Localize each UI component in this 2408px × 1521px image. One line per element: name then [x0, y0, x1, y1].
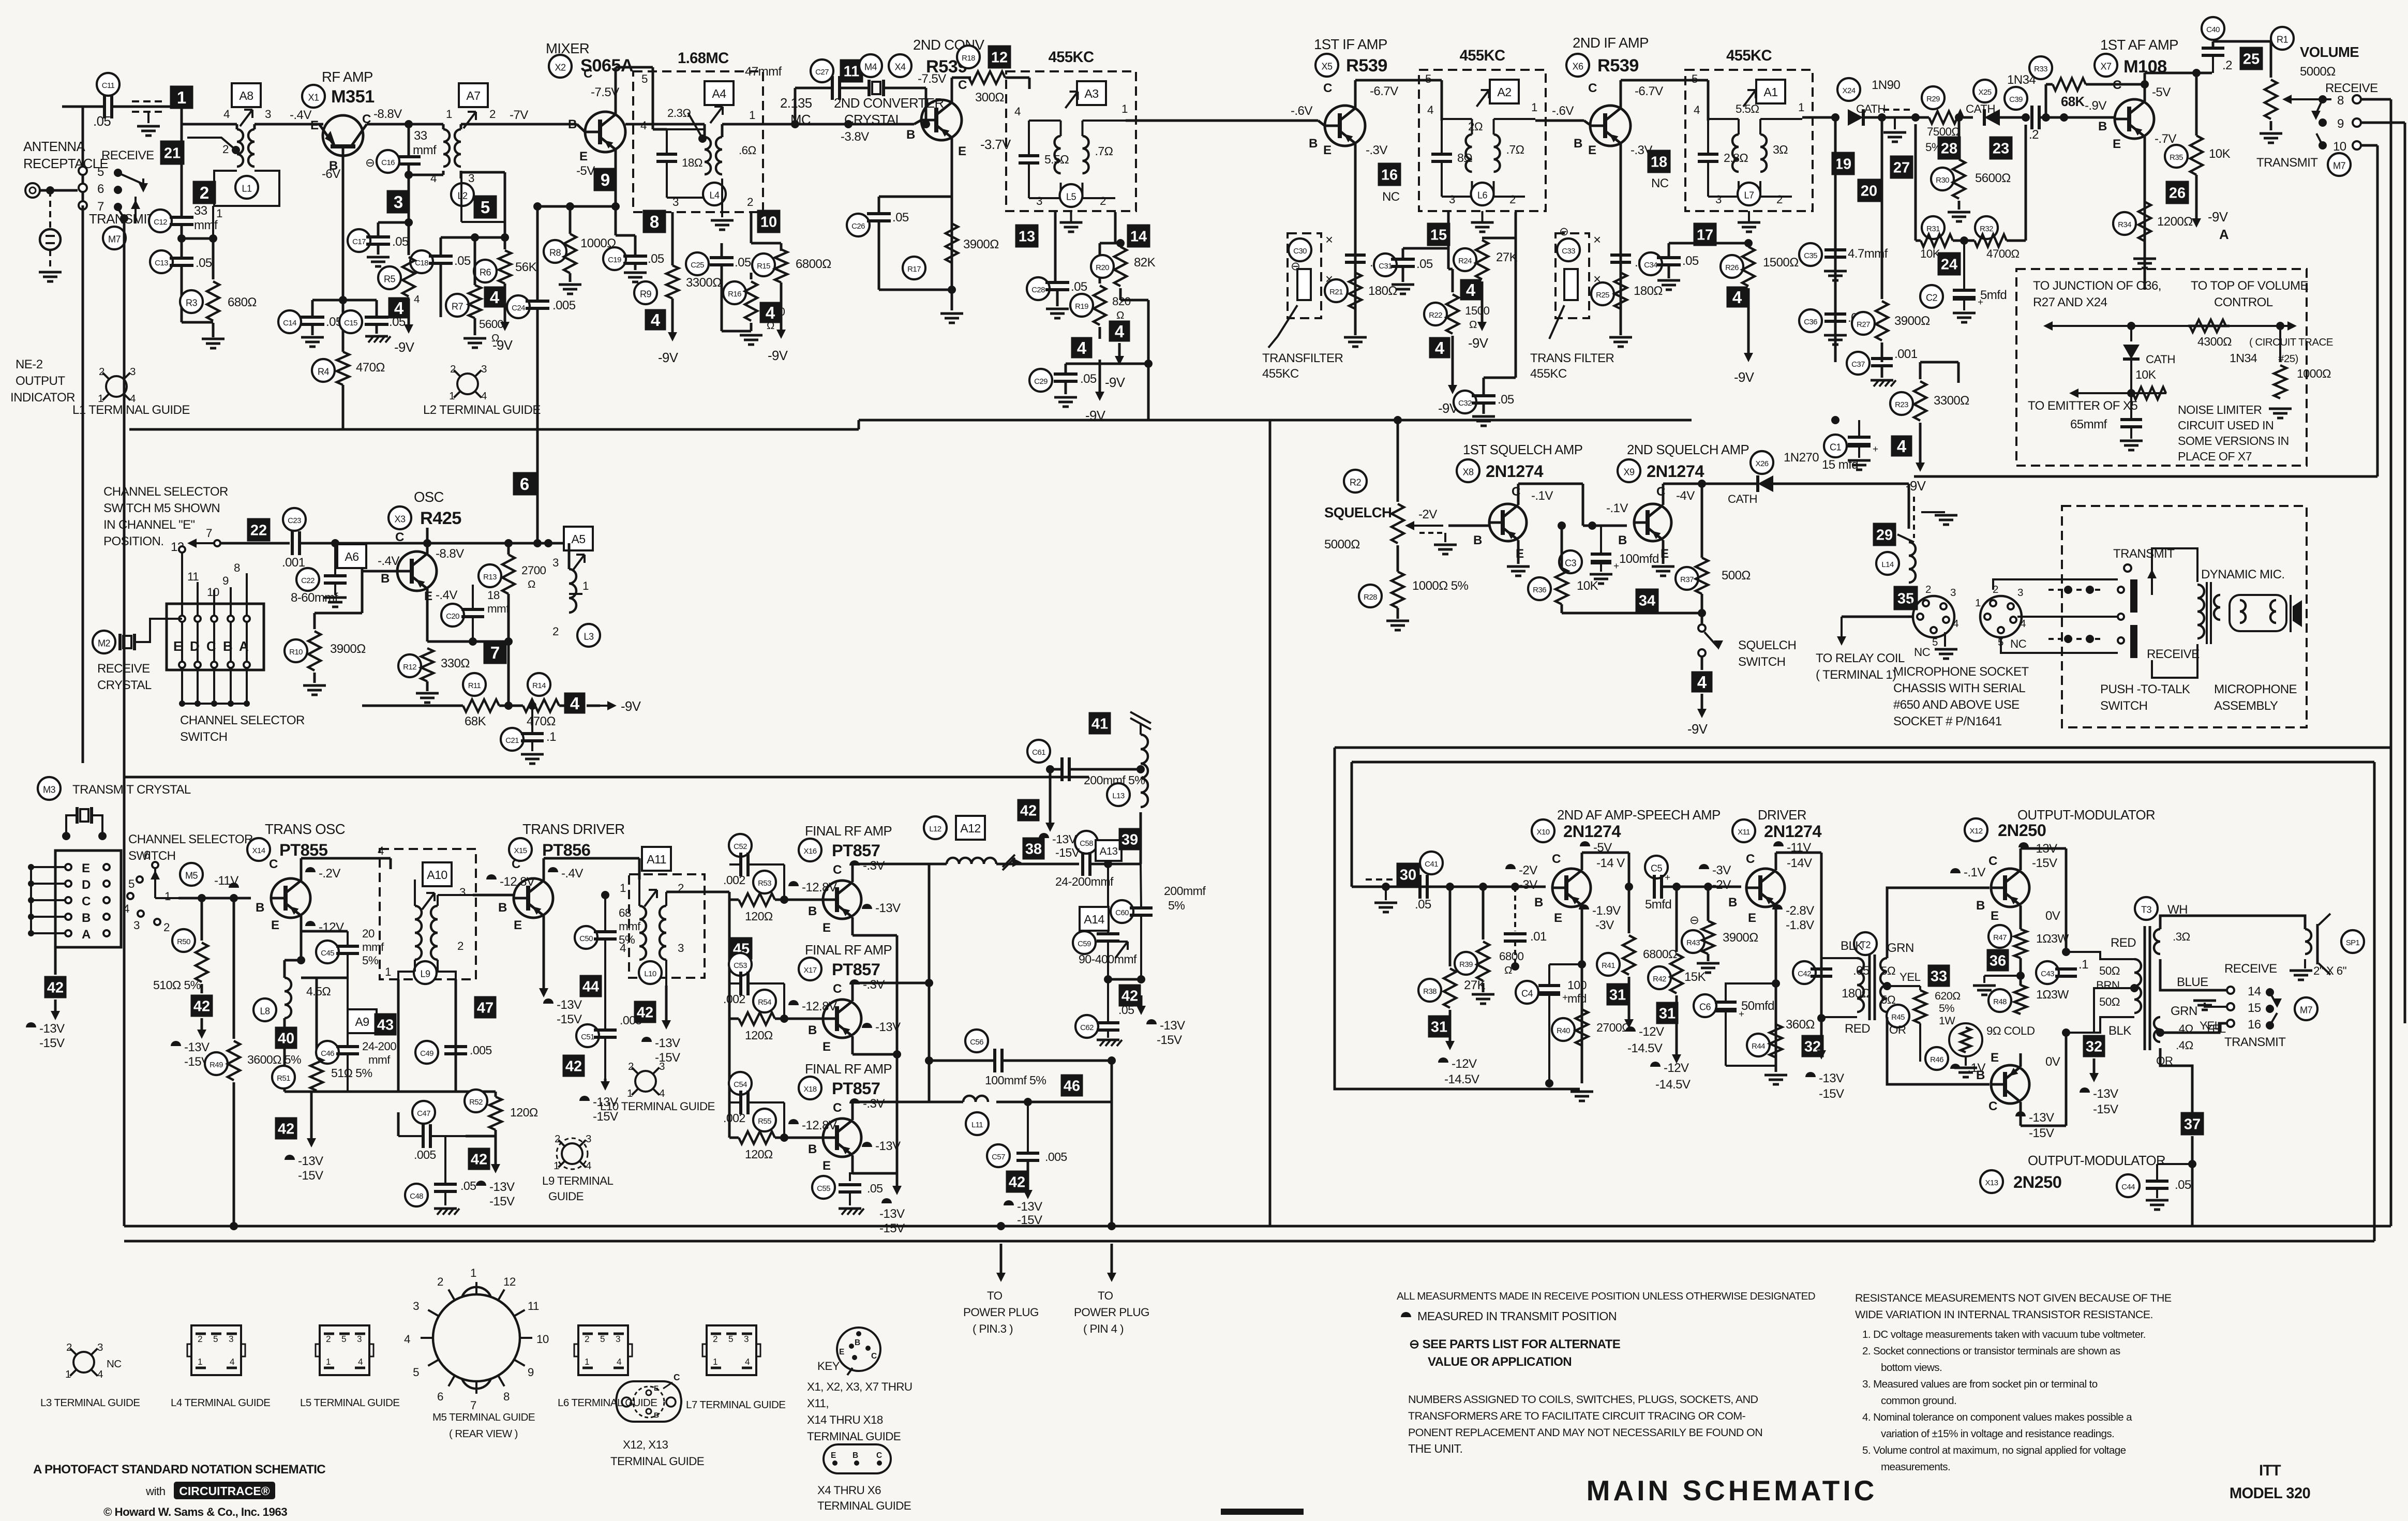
svg-text:C39: C39	[2009, 95, 2023, 104]
wire L5 pin3 down	[1054, 212, 1057, 282]
svg-text:-14V: -14V	[1787, 856, 1812, 870]
capacitor C11	[103, 95, 106, 118]
capacitor C24 label	[507, 295, 530, 318]
wire X17 collector to bus	[851, 983, 854, 988]
mic socket 1 circle	[1913, 596, 1954, 637]
svg-text:4: 4	[570, 694, 580, 713]
svg-text:A10: A10	[427, 868, 447, 882]
resistor R55	[739, 1131, 775, 1144]
wire X1 emitter from L1	[317, 124, 323, 137]
transistor X14 label	[247, 838, 270, 861]
resistor R12 label	[398, 654, 421, 677]
X12 X13 terminal guide	[616, 1381, 681, 1422]
wire selector to X14 base	[178, 897, 251, 900]
resistor R32 label	[1975, 216, 1998, 239]
svg-text:.3Ω: .3Ω	[2173, 930, 2190, 943]
svg-text:B: B	[2098, 120, 2107, 133]
svg-text:ITT: ITT	[2259, 1463, 2281, 1479]
svg-text:.05: .05	[1080, 372, 1097, 386]
svg-text:C: C	[871, 1352, 877, 1361]
svg-text:.05: .05	[1118, 1003, 1134, 1017]
svg-text:-13V: -13V	[489, 1180, 515, 1194]
svg-text:4: 4	[651, 310, 661, 330]
svg-text:C36: C36	[1804, 318, 1817, 326]
svg-text:R539: R539	[1346, 56, 1387, 76]
svg-text:-9V: -9V	[621, 699, 641, 714]
resistor R43 label	[1682, 930, 1704, 953]
svg-text:C21: C21	[505, 736, 519, 745]
svg-text:3: 3	[672, 196, 679, 208]
svg-text:5.5Ω: 5.5Ω	[1736, 102, 1759, 115]
svg-text:R12: R12	[403, 663, 416, 672]
transistor X7	[2115, 99, 2154, 139]
svg-text:10K: 10K	[1577, 579, 1598, 593]
contact wires up	[197, 582, 199, 616]
svg-text:C22: C22	[301, 576, 315, 585]
svg-text:0V: 0V	[2045, 1055, 2060, 1069]
svg-text:10K: 10K	[2209, 147, 2231, 161]
svg-text:3: 3	[678, 942, 684, 955]
svg-text:2.3Ω: 2.3Ω	[667, 107, 691, 120]
ground stub near wiper	[1444, 533, 1446, 542]
svg-text:E: E	[82, 861, 90, 875]
svg-text:.2: .2	[2029, 128, 2039, 142]
svg-text:L5: L5	[1066, 191, 1076, 202]
svg-text:C45: C45	[321, 949, 334, 958]
CircuiTrace square 19	[1832, 152, 1855, 175]
svg-text:-.3V: -.3V	[1366, 143, 1387, 157]
power bus lower	[124, 1240, 2374, 1243]
svg-text:C49: C49	[420, 1049, 433, 1058]
diode X26	[1702, 483, 1757, 485]
wire L6 pin3 down	[1447, 212, 1450, 269]
CircuiTrace 42 below C60	[1119, 985, 1141, 1007]
svg-text:5: 5	[728, 1334, 733, 1344]
svg-text:C40: C40	[2206, 25, 2220, 34]
capacitor C14	[301, 316, 324, 319]
wire contact 8 right edge	[2361, 98, 2391, 101]
svg-text:28: 28	[1941, 140, 1957, 157]
svg-text:R23: R23	[1895, 400, 1908, 409]
input dashes and ground	[1366, 878, 1397, 881]
capacitor C59	[1097, 932, 1119, 935]
capacitor C22	[324, 574, 347, 577]
CircuiTrace square 46	[1061, 1075, 1083, 1097]
svg-text:A2: A2	[1497, 85, 1511, 99]
trimmer mark A8	[240, 110, 252, 126]
CircuiTrace 42 under C61	[1018, 799, 1040, 822]
ground below C35	[1834, 257, 1837, 269]
ground below R8	[559, 284, 581, 286]
capacitor C15 label	[339, 310, 362, 333]
svg-text:-6.7V: -6.7V	[1635, 84, 1663, 98]
svg-text:6800Ω: 6800Ω	[796, 257, 831, 271]
CircuiTrace 4 below R26	[1727, 287, 1748, 308]
svg-text:455KC: 455KC	[1460, 48, 1505, 64]
CircuiTrace square 41	[1089, 712, 1111, 735]
pot wiper arrow	[2285, 98, 2317, 100]
capacitor C25	[710, 256, 734, 259]
svg-text:2.8Ω: 2.8Ω	[1724, 151, 1748, 165]
svg-text:C18: C18	[415, 259, 428, 267]
svg-text:C42: C42	[1798, 970, 1811, 978]
capacitor C30 label	[1289, 238, 1311, 261]
power bus upper	[124, 1225, 2391, 1228]
antenna mark at L13	[1140, 723, 1142, 735]
capacitor C41 label	[1420, 852, 1443, 874]
svg-text:-9V: -9V	[1105, 376, 1126, 390]
transistor X11	[1746, 869, 1785, 907]
svg-text:1: 1	[713, 1356, 717, 1367]
ground below R16	[722, 330, 751, 333]
T3 YEL tap wire	[2156, 1028, 2164, 1037]
svg-text:68K: 68K	[2061, 95, 2085, 109]
transistor X4	[921, 100, 962, 140]
resistor R23	[1914, 381, 1926, 421]
svg-text:3: 3	[586, 1133, 591, 1145]
svg-text:4: 4	[586, 1160, 591, 1172]
svg-text:+: +	[1873, 444, 1878, 455]
coil label L6	[1471, 183, 1494, 205]
T3 primary connections	[2066, 952, 2134, 959]
svg-text:-15V: -15V	[298, 1169, 323, 1183]
speaker ground	[2304, 959, 2306, 968]
svg-text:11: 11	[844, 63, 860, 80]
noise limiter 1000 ohm resistor	[2279, 326, 2281, 362]
svg-text:-15V: -15V	[1819, 1087, 1844, 1101]
resistor R34	[2138, 202, 2151, 241]
svg-text:X24: X24	[1843, 86, 1856, 95]
svg-text:100: 100	[1567, 978, 1587, 992]
CircuiTrace 4 below R23	[1891, 436, 1912, 457]
svg-text:2ND CONVERTER: 2ND CONVERTER	[834, 96, 944, 111]
L10 pin3 to -13V	[665, 986, 668, 1026]
receptacle terminal circles	[79, 167, 87, 175]
svg-text:.05: .05	[392, 235, 409, 249]
svg-text:CIRCUIT USED IN: CIRCUIT USED IN	[2178, 419, 2274, 432]
svg-text:INDICATOR: INDICATOR	[10, 391, 75, 405]
selector upper contacts	[179, 616, 185, 622]
capacitor C11 label	[97, 73, 119, 96]
svg-text:Ω: Ω	[1116, 309, 1124, 321]
svg-text:IN CHANNEL "E": IN CHANNEL "E"	[103, 518, 195, 532]
capacitor C44 label	[2117, 1174, 2140, 1197]
svg-text:2: 2	[200, 183, 209, 202]
svg-text:-1.8V: -1.8V	[1786, 918, 1814, 932]
osc out bus	[569, 641, 570, 642]
CircuiTrace square 4 below R6	[484, 287, 505, 308]
svg-text:6: 6	[520, 474, 529, 494]
T3 BLUE wire	[2160, 959, 2226, 990]
svg-text:PT855: PT855	[279, 840, 328, 859]
svg-text:CRYSTAL: CRYSTAL	[97, 678, 152, 692]
svg-text:2" X 6": 2" X 6"	[2313, 964, 2346, 977]
wire C40 top to volume	[2212, 41, 2215, 48]
svg-text:3900Ω: 3900Ω	[1723, 931, 1758, 945]
svg-text:-7V: -7V	[510, 108, 528, 122]
svg-text:1N270: 1N270	[1784, 451, 1819, 465]
transformer T2 secondary	[1880, 958, 1887, 1012]
svg-text:TRANSMIT: TRANSMIT	[2224, 1035, 2286, 1049]
svg-text:2N250: 2N250	[2013, 1172, 2061, 1191]
transistor X12 label	[1965, 818, 1987, 841]
C60 to -13V	[1140, 995, 1143, 1012]
svg-text:X10: X10	[1537, 828, 1550, 837]
svg-text:-2V: -2V	[1418, 508, 1437, 521]
capacitor C21	[521, 732, 544, 735]
A10 dashed box	[380, 849, 476, 979]
svg-text:L3: L3	[584, 631, 594, 642]
transfilter 2 body	[1564, 269, 1578, 300]
svg-text:R5: R5	[384, 274, 395, 284]
svg-text:R22: R22	[1429, 311, 1442, 320]
resistor R36	[1556, 568, 1568, 604]
transfilter 2 capacitor	[1610, 253, 1631, 257]
svg-text:-13V: -13V	[879, 1207, 905, 1221]
svg-text:3300Ω: 3300Ω	[686, 276, 722, 290]
svg-text:POWER PLUG: POWER PLUG	[1074, 1306, 1149, 1319]
volume potentiometer R1	[2265, 80, 2277, 119]
CircuiTrace square 5	[474, 196, 497, 219]
svg-text:M3: M3	[43, 784, 55, 795]
X18 emitter to C55	[852, 1173, 897, 1174]
ground below C21	[521, 753, 544, 756]
svg-text:A14: A14	[1084, 913, 1104, 926]
svg-text:C61: C61	[1032, 748, 1045, 757]
svg-text:POWER PLUG: POWER PLUG	[963, 1306, 1039, 1319]
svg-text:10: 10	[2333, 140, 2346, 154]
L1 terminal guide	[106, 376, 127, 397]
svg-text:E: E	[173, 639, 182, 654]
resistor R45 label	[1887, 1005, 1909, 1027]
resistor R50	[196, 943, 208, 982]
svg-text:RECEIVE: RECEIVE	[2224, 962, 2277, 976]
capacitor C18	[429, 255, 453, 258]
wire L9 pin1 down	[414, 960, 416, 972]
svg-text:33: 33	[194, 204, 207, 218]
resistor R23 label	[1890, 392, 1913, 415]
wire R24 top	[1482, 237, 1516, 240]
svg-text:R52: R52	[469, 1098, 483, 1107]
svg-text:⊖: ⊖	[365, 156, 375, 169]
svg-text:-2V: -2V	[1712, 878, 1731, 892]
resistor R30 label	[1931, 168, 1954, 190]
svg-text:16: 16	[2248, 1018, 2261, 1032]
wire C26 loop	[878, 196, 880, 198]
node B line down	[342, 156, 345, 352]
coil L11	[963, 1096, 988, 1102]
svg-text:2ND IF AMP: 2ND IF AMP	[1573, 35, 1649, 51]
node below C45	[301, 977, 348, 979]
resistor R51 label	[272, 1066, 295, 1088]
svg-text:mmf: mmf	[194, 218, 218, 232]
R50 to -13V	[201, 1018, 203, 1036]
resistor R41 label	[1597, 953, 1620, 976]
resistor R42 label	[1648, 966, 1671, 989]
svg-text:20: 20	[1861, 183, 1877, 199]
terminal box A11	[642, 847, 671, 871]
svg-text:33: 33	[1931, 968, 1947, 985]
terminal box A8	[232, 83, 261, 107]
svg-text:2: 2	[555, 1133, 560, 1145]
svg-text:50Ω: 50Ω	[2099, 995, 2120, 1008]
CircuiTrace square 6	[513, 472, 536, 496]
capacitor C62 label	[1075, 1015, 1098, 1038]
svg-text:TO TOP OF VOLUME: TO TOP OF VOLUME	[2191, 279, 2308, 293]
svg-text:R42: R42	[1653, 975, 1666, 983]
svg-text:11: 11	[187, 570, 199, 583]
svg-text:-9V: -9V	[1734, 370, 1755, 385]
wire X2 collector up to 1.68MC pin5	[615, 67, 617, 101]
svg-text:X3: X3	[395, 514, 406, 524]
svg-text:C13: C13	[155, 259, 168, 267]
svg-text:DYNAMIC MIC.: DYNAMIC MIC.	[2201, 568, 2284, 581]
svg-text:-14.5V: -14.5V	[1655, 1078, 1691, 1092]
transistor X17	[823, 1000, 861, 1038]
svg-text:FINAL RF AMP: FINAL RF AMP	[805, 824, 892, 839]
resistor R37 label	[1676, 567, 1698, 590]
resistor R16 label	[723, 281, 746, 304]
svg-text:5.5Ω: 5.5Ω	[1044, 153, 1069, 166]
wire antenna to square 1	[62, 106, 104, 108]
resistor R39 label	[1455, 952, 1477, 975]
svg-text:3300Ω: 3300Ω	[1934, 394, 1969, 408]
svg-text:3: 3	[1449, 193, 1455, 206]
capacitor C55	[839, 1183, 861, 1186]
CircuiTrace square 11	[840, 59, 863, 83]
svg-text:3: 3	[468, 172, 474, 185]
svg-text:E: E	[1748, 911, 1756, 925]
CircuiTrace square 20	[1858, 179, 1881, 202]
svg-text:-9V: -9V	[2208, 210, 2228, 225]
A11 dashed box	[629, 874, 705, 978]
svg-text:510Ω 5%: 510Ω 5%	[153, 978, 201, 992]
svg-text:⊖: ⊖	[1689, 914, 1699, 927]
capacitor C39 label	[2005, 87, 2027, 110]
coil L9 primary	[415, 906, 422, 960]
svg-text:TRANS OSC: TRANS OSC	[265, 821, 345, 837]
svg-text:2: 2	[99, 366, 104, 378]
ground below C32	[1472, 415, 1495, 418]
M5 terminal guide	[433, 1294, 520, 1381]
coil L3	[569, 569, 576, 613]
socket M7 label right	[2328, 153, 2351, 176]
svg-text:D: D	[82, 878, 91, 892]
svg-text:TRANSFORMERS ARE TO FACILITATE: TRANSFORMERS ARE TO FACILITATE CIRCUIT T…	[1408, 1410, 1746, 1422]
capacitor inside L5	[1019, 154, 1039, 157]
svg-text:A4: A4	[712, 87, 726, 100]
resistor R5	[402, 257, 415, 296]
svg-text:VALUE OR APPLICATION: VALUE OR APPLICATION	[1428, 1355, 1572, 1369]
svg-text:TERMINAL GUIDE: TERMINAL GUIDE	[807, 1430, 901, 1443]
wire L2 to mixer	[461, 123, 577, 126]
resistor R15	[775, 249, 787, 282]
svg-text:L6 TERMINAL GUIDE: L6 TERMINAL GUIDE	[558, 1397, 657, 1409]
svg-text:2: 2	[1776, 193, 1783, 206]
svg-text:PT857: PT857	[832, 1079, 880, 1098]
squelch switch to -9V	[1701, 694, 1703, 715]
wire X12 collector riser	[2020, 848, 2022, 857]
svg-text:-.1V: -.1V	[1964, 866, 1985, 879]
IF transformer can L6 455KC	[1419, 70, 1546, 211]
svg-text:7: 7	[206, 527, 212, 540]
svg-text:X6: X6	[1573, 61, 1583, 71]
svg-text:X16: X16	[804, 847, 817, 856]
svg-text:C19: C19	[608, 256, 621, 264]
svg-text:4: 4	[1897, 437, 1907, 456]
CircuiTrace square 47	[474, 996, 497, 1019]
svg-text:500Ω: 500Ω	[1722, 569, 1751, 583]
svg-text:A12: A12	[960, 822, 980, 835]
coil L5 secondary	[1083, 136, 1089, 173]
svg-text:120Ω: 120Ω	[745, 909, 773, 923]
svg-text:27: 27	[1893, 159, 1910, 176]
C51 to -13V	[604, 1079, 607, 1087]
svg-text:.2: .2	[2222, 58, 2232, 72]
svg-text:ALL MEASURMENTS MADE IN RECEIV: ALL MEASURMENTS MADE IN RECEIVE POSITION…	[1397, 1290, 1815, 1302]
ground below R39	[1472, 993, 1494, 996]
resistor R51	[310, 1057, 323, 1091]
resistor R3 label	[180, 290, 203, 313]
svg-text:R46: R46	[1930, 1055, 1943, 1064]
svg-text:-.7V: -.7V	[2155, 132, 2176, 146]
svg-text:27K: 27K	[1496, 250, 1518, 264]
transformer T2 primary	[1857, 958, 1864, 1012]
svg-text:C47: C47	[417, 1109, 430, 1118]
svg-text:TO JUNCTION OF C36,: TO JUNCTION OF C36,	[2033, 279, 2161, 293]
svg-text:L2 TERMINAL GUIDE: L2 TERMINAL GUIDE	[423, 403, 541, 417]
L9 terminal guide	[562, 1143, 582, 1164]
svg-text:R43: R43	[1686, 938, 1700, 947]
svg-text:4: 4	[481, 390, 487, 402]
svg-text:2: 2	[437, 1275, 443, 1288]
svg-text:.002: .002	[723, 873, 745, 887]
trimmer mark A7	[463, 112, 476, 128]
svg-text:3: 3	[481, 363, 487, 375]
electrolytic C3	[1591, 553, 1611, 556]
svg-text:C15: C15	[344, 319, 357, 327]
svg-text:B: B	[1976, 899, 1985, 913]
svg-text:3: 3	[2017, 587, 2023, 599]
diode X25	[1984, 109, 2000, 126]
terminal box A12	[956, 816, 985, 840]
svg-text:.05: .05	[2175, 1178, 2191, 1192]
svg-text:R27: R27	[1857, 320, 1870, 329]
svg-text:40: 40	[278, 1030, 294, 1047]
noise limiter diode	[2130, 326, 2132, 341]
svg-text:R38: R38	[1423, 987, 1437, 996]
svg-text:mmf: mmf	[362, 941, 384, 953]
svg-text:-13V: -13V	[1017, 1200, 1042, 1214]
resistor R39	[1477, 942, 1489, 981]
wire X5 collector to A2 pin5	[1354, 80, 1357, 95]
svg-text:.005: .005	[414, 1148, 436, 1161]
noise limiter 65mmf cap	[2130, 393, 2132, 418]
svg-text:-8.8V: -8.8V	[373, 107, 402, 121]
svg-text:R29: R29	[1926, 95, 1940, 103]
svg-text:5mfd: 5mfd	[1980, 288, 2007, 302]
terminal box A14	[1080, 907, 1109, 931]
CircuiTrace 42 below L10	[634, 1001, 656, 1023]
svg-text:L1: L1	[242, 183, 252, 193]
wire L4 pin2 down	[750, 212, 753, 243]
CircuiTrace 42 left edge	[44, 976, 67, 998]
svg-text:A11: A11	[647, 853, 666, 866]
capacitor C41	[1418, 875, 1422, 899]
wire L10 pin3 down	[665, 960, 667, 986]
svg-text:50Ω: 50Ω	[2099, 964, 2120, 977]
svg-text:R51: R51	[277, 1074, 290, 1083]
